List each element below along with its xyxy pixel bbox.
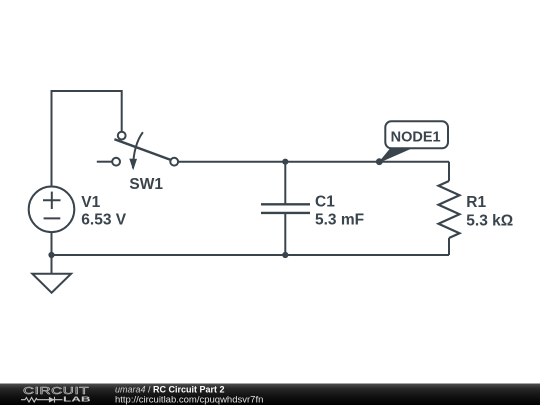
switch SW1 actuation arrow (133, 132, 143, 168)
wire right side down to resistor (448, 162, 450, 181)
switch SW1 (114, 139, 170, 160)
label R1 value (466, 194, 513, 230)
wire V1 top to corner (52, 91, 122, 186)
junction node V1 ground (48, 252, 54, 258)
label C1 value (315, 194, 364, 229)
svg-text:LAB: LAB (63, 396, 91, 404)
junction node C1 top (282, 159, 288, 165)
node NODE1 callout box (385, 121, 448, 148)
svg-text:5.3 kΩ: 5.3 kΩ (466, 212, 513, 229)
CircuitLab logo resistor-diode wire (21, 397, 63, 403)
svg-text:5.3 mF: 5.3 mF (315, 211, 364, 228)
junction node NODE1 (376, 158, 383, 165)
label V1 value (81, 194, 126, 229)
junction node C1 bottom (282, 252, 288, 258)
wire C1 top (284, 162, 286, 204)
svg-text:V1: V1 (81, 194, 100, 211)
node NODE1 callout tail (379, 148, 412, 163)
wire switch left stub (97, 161, 112, 163)
svg-text:C1: C1 (315, 194, 335, 211)
wire C1 bottom (284, 213, 286, 255)
svg-text:6.53 V: 6.53 V (81, 212, 126, 229)
wire top rail (179, 161, 449, 163)
svg-text:SW1: SW1 (129, 176, 163, 193)
wire resistor bottom to rail (448, 238, 450, 255)
svg-text:R1: R1 (466, 194, 486, 211)
wire V1 bottom to ground (51, 232, 53, 273)
capacitor C1 (261, 204, 310, 213)
svg-text:umara4 / RC Circuit Part 2: umara4 / RC Circuit Part 2 (115, 385, 225, 395)
voltage source V1 (29, 187, 75, 233)
svg-text:NODE1: NODE1 (391, 130, 441, 146)
ground (32, 274, 71, 293)
svg-text:http://circuitlab.com/cpuqwhds: http://circuitlab.com/cpuqwhdsvr7fn (115, 394, 263, 405)
wire bottom rail (52, 254, 450, 256)
resistor R1 (439, 181, 460, 238)
